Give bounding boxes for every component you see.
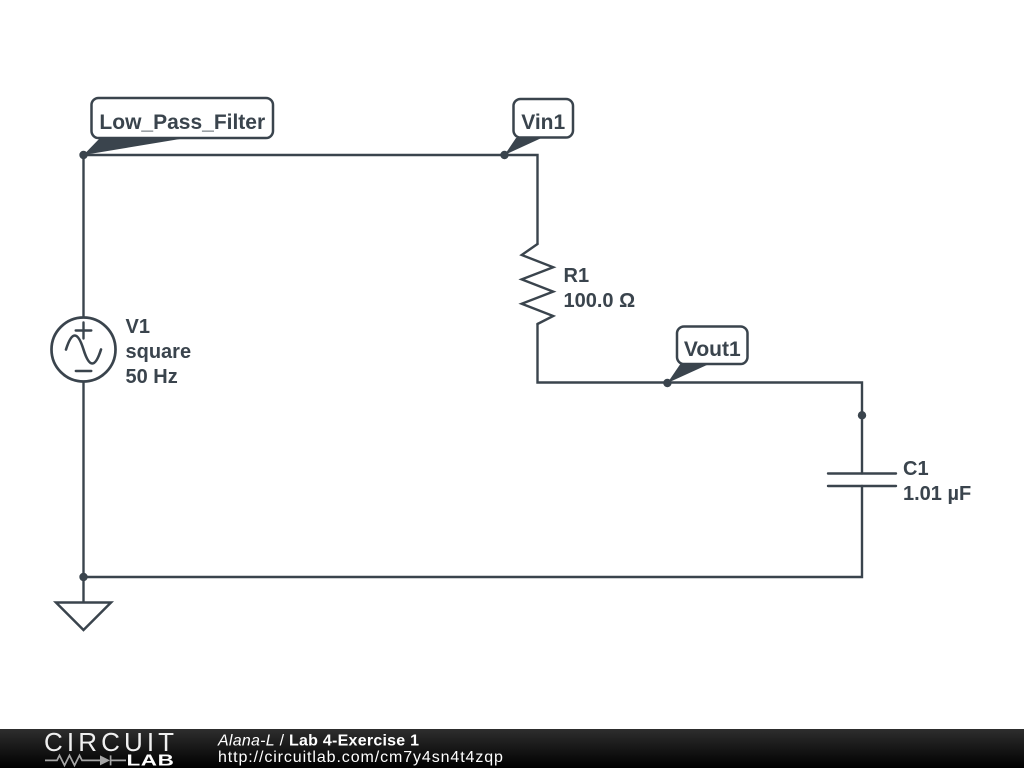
svg-text:square: square — [126, 341, 192, 363]
svg-text:Vout1: Vout1 — [684, 338, 741, 361]
svg-text:R1: R1 — [564, 265, 590, 287]
svg-text:http://circuitlab.com/cm7y4sn4: http://circuitlab.com/cm7y4sn4t4zqp — [218, 749, 504, 766]
svg-text:Low_Pass_Filter: Low_Pass_Filter — [99, 111, 265, 134]
svg-text:Alana-L / Lab 4-Exercise 1: Alana-L / Lab 4-Exercise 1 — [217, 733, 419, 750]
svg-text:C1: C1 — [903, 458, 929, 480]
svg-text:50 Hz: 50 Hz — [126, 366, 178, 388]
svg-text:LAB: LAB — [127, 753, 175, 768]
svg-text:Vin1: Vin1 — [521, 111, 565, 134]
svg-text:100.0 Ω: 100.0 Ω — [564, 290, 636, 312]
svg-text:1.01 µF: 1.01 µF — [903, 483, 971, 505]
svg-text:V1: V1 — [126, 316, 150, 338]
